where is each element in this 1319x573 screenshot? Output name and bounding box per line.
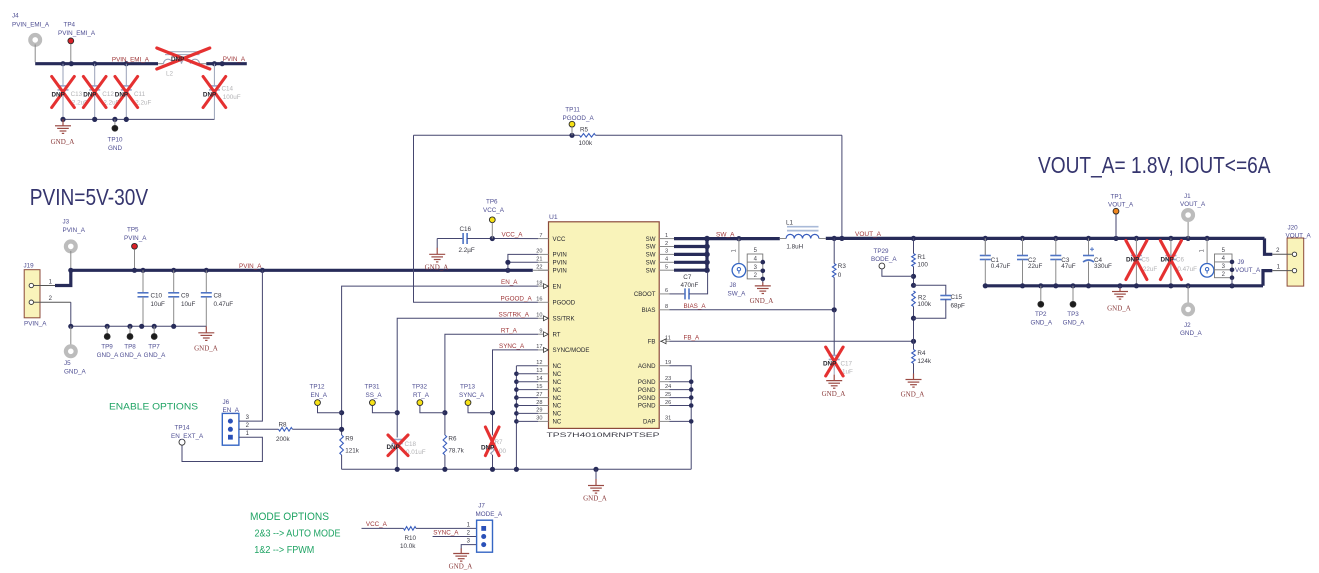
- svg-text:DNP: DNP: [115, 91, 128, 98]
- capacitor C1 0.47uF: [984, 238, 986, 255]
- pin 10 SS/TRK (U1 left): [538, 317, 549, 319]
- ground GND_A (J7): [453, 549, 469, 562]
- svg-text:10.0k: 10.0k: [400, 543, 416, 550]
- svg-text:GND_A: GND_A: [144, 352, 166, 359]
- wire PVIN_EMI_A bus: [35, 62, 158, 65]
- svg-text:C10: C10: [151, 292, 163, 299]
- pin 18 EN (U1 left): [538, 285, 549, 287]
- DNP mark C6: [1160, 241, 1181, 280]
- pin 3 SW (U1 right): [659, 253, 669, 255]
- wire TP5 stub: [134, 249, 136, 270]
- wire TP29 to R1/R2 node: [882, 269, 914, 276]
- svg-text:C5: C5: [1141, 257, 1150, 264]
- svg-text:R5: R5: [580, 127, 589, 134]
- ground GND_A (J8): [755, 282, 771, 293]
- svg-text:15: 15: [536, 384, 542, 390]
- svg-text:DAP: DAP: [643, 419, 656, 426]
- pin 12 NC (U1 left): [538, 365, 549, 367]
- svg-text:PGOOD: PGOOD: [553, 300, 576, 307]
- svg-text:DNP: DNP: [171, 56, 184, 63]
- svg-text:GND_A: GND_A: [750, 297, 774, 305]
- svg-text:470nF: 470nF: [681, 282, 699, 289]
- svg-text:30: 30: [536, 416, 542, 422]
- svg-text:8: 8: [665, 304, 668, 310]
- wire TP12 to EN net: [318, 406, 342, 413]
- svg-text:GND_A: GND_A: [822, 390, 846, 398]
- svg-text:PGND: PGND: [638, 387, 656, 394]
- svg-text:TP1: TP1: [1111, 193, 1123, 200]
- wire AGND/PGND/DAP to ground rail: [670, 366, 692, 470]
- svg-text:10uF: 10uF: [151, 301, 166, 308]
- pin 2 SW (U1 right): [659, 246, 669, 248]
- connector J6 EN_A: [222, 413, 239, 445]
- wire TP31 to SS net: [372, 406, 397, 413]
- connector J3 PVIN_A: [66, 242, 76, 252]
- capacitor C3 47uF: [1055, 238, 1057, 255]
- svg-text:TP11: TP11: [565, 107, 580, 114]
- svg-text:R3: R3: [838, 263, 847, 270]
- pin 20 PVIN (U1 left): [538, 253, 549, 255]
- pin 16 PGOOD (U1 left): [538, 301, 549, 303]
- svg-text:EN: EN: [553, 283, 561, 290]
- wire NC pins junction vertical: [515, 366, 517, 470]
- pin 6 CBOOT (U1 right): [659, 293, 669, 295]
- svg-text:DNP: DNP: [203, 91, 216, 98]
- wire FB_A net: [670, 340, 914, 342]
- svg-text:GND_A: GND_A: [1030, 320, 1052, 327]
- resistor R7 100 (DNP): [491, 435, 495, 455]
- ground GND_A (C17): [826, 375, 842, 389]
- svg-text:CBOOT: CBOOT: [634, 291, 656, 298]
- svg-text:VCC_A: VCC_A: [483, 207, 505, 214]
- svg-text:TPS7H4010MRNPTSEP: TPS7H4010MRNPTSEP: [547, 432, 660, 439]
- connector J19 PVIN_A: [24, 270, 40, 318]
- svg-text:14: 14: [536, 376, 542, 382]
- testpoint TP8 GND_A: [129, 326, 131, 333]
- wire PVIN_A bus: [71, 269, 533, 272]
- svg-text:0: 0: [838, 272, 842, 279]
- svg-text:EN_A: EN_A: [501, 279, 518, 286]
- testpoint TP14 EN_EXT_A: [179, 439, 185, 445]
- wire J19 pin1 to PVIN bus: [55, 270, 71, 285]
- svg-text:GND_A: GND_A: [120, 352, 142, 359]
- capacitor C12 2.2uF (DNP): [94, 64, 96, 86]
- svg-text:PVIN_EMI_A: PVIN_EMI_A: [12, 21, 50, 28]
- testpoint TP2 GND_A: [1040, 286, 1042, 302]
- svg-text:10uF: 10uF: [181, 301, 196, 308]
- svg-text:100k: 100k: [579, 140, 594, 147]
- svg-text:DNP: DNP: [52, 91, 65, 98]
- svg-text:R4: R4: [917, 350, 926, 357]
- svg-text:0.47uF: 0.47uF: [991, 263, 1011, 270]
- pin 1 J19: [34, 285, 56, 287]
- svg-text:J5: J5: [64, 360, 71, 367]
- svg-text:7: 7: [539, 233, 542, 239]
- resistor R6 78.7k: [443, 435, 447, 455]
- ground GND_A (input section): [198, 326, 214, 340]
- svg-text:21: 21: [536, 257, 542, 263]
- svg-text:TP2: TP2: [1035, 311, 1047, 318]
- svg-text:GND_A: GND_A: [1180, 330, 1202, 337]
- svg-text:0.47uF: 0.47uF: [1177, 266, 1197, 273]
- svg-text:J2: J2: [1184, 322, 1191, 329]
- wire RT_A net vertical: [445, 334, 538, 435]
- testpoint TP4 PVIN_EMI_A: [68, 38, 74, 44]
- svg-text:SW_A: SW_A: [728, 291, 747, 298]
- svg-text:20: 20: [536, 249, 542, 255]
- inductor L2 (DNP): [165, 51, 200, 53]
- resistor R3 0: [833, 238, 835, 263]
- svg-text:NC: NC: [553, 411, 562, 418]
- ground GND_A (R4): [906, 374, 922, 388]
- connector J9 VOUT_A (coax): [1206, 238, 1208, 263]
- svg-text:27: 27: [536, 392, 542, 398]
- wire VCC_A to pin 7: [467, 238, 538, 240]
- capacitor C14 100uF (DNP): [213, 64, 215, 86]
- resistor R10 10.0k: [404, 527, 417, 531]
- wire SW_A bus to L1: [707, 237, 780, 240]
- pin 14 NC (U1 left): [538, 381, 549, 383]
- svg-text:VOUT_A: VOUT_A: [1286, 232, 1312, 239]
- pin 13 NC (U1 left): [538, 373, 549, 375]
- capacitor C11 2.2uF (DNP): [125, 64, 127, 86]
- svg-text:26: 26: [665, 400, 671, 406]
- svg-text:GND_A: GND_A: [449, 563, 473, 571]
- svg-text:DNP: DNP: [387, 444, 400, 451]
- svg-text:13: 13: [536, 368, 542, 374]
- svg-text:DNP: DNP: [1126, 257, 1139, 264]
- ground GND_A (C16): [436, 239, 438, 249]
- svg-text:C16: C16: [460, 226, 472, 233]
- DNP mark C12: [83, 77, 106, 108]
- pin 31 DAP (U1 right): [659, 420, 669, 422]
- svg-text:100k: 100k: [917, 301, 932, 308]
- svg-text:PVIN_EMI_A: PVIN_EMI_A: [112, 56, 150, 63]
- svg-text:VOUT_A= 1.8V, IOUT<=6A: VOUT_A= 1.8V, IOUT<=6A: [1038, 152, 1271, 178]
- ground GND_A (analog rail): [595, 469, 597, 479]
- svg-text:VCC: VCC: [553, 236, 566, 243]
- svg-text:NC: NC: [553, 371, 562, 378]
- svg-text:C17: C17: [841, 360, 853, 367]
- svg-text:C15: C15: [951, 294, 963, 301]
- pin 28 NC (U1 left): [538, 405, 549, 407]
- testpoint TP6 VCC_A: [489, 217, 495, 223]
- pin 2 J19: [34, 301, 71, 303]
- svg-text:SYNC_A: SYNC_A: [499, 343, 525, 350]
- svg-text:GND_A: GND_A: [51, 138, 75, 146]
- svg-text:DNP: DNP: [481, 444, 494, 451]
- pin 23 PGND (U1 right): [659, 381, 669, 383]
- svg-text:22: 22: [536, 265, 542, 271]
- wire EN_A net vertical: [342, 286, 538, 435]
- svg-text:SW: SW: [646, 260, 656, 267]
- svg-text:GND_A: GND_A: [425, 264, 449, 272]
- wire input ground rail: [71, 325, 207, 327]
- svg-text:6: 6: [665, 288, 668, 294]
- svg-text:TP7: TP7: [148, 344, 160, 351]
- DNP mark C11: [115, 77, 138, 108]
- svg-text:SYNC_A: SYNC_A: [433, 529, 459, 536]
- svg-text:TP32: TP32: [412, 384, 428, 391]
- svg-text:NC: NC: [553, 395, 562, 402]
- svg-text:J20: J20: [1288, 224, 1299, 231]
- pin 11 FB (U1 right): [659, 340, 669, 342]
- testpoint TP5 PVIN_A: [132, 243, 138, 249]
- wire SYNC_A net vertical: [493, 350, 539, 435]
- svg-text:TP6: TP6: [486, 199, 498, 206]
- svg-text:GND_A: GND_A: [1107, 304, 1131, 312]
- svg-text:TP13: TP13: [460, 384, 476, 391]
- DNP mark C5: [1126, 241, 1147, 280]
- svg-text:SW: SW: [646, 244, 656, 251]
- ground GND_A (output rail): [1119, 286, 1121, 289]
- svg-text:124k: 124k: [917, 358, 932, 365]
- J8 shield pins: [747, 254, 763, 279]
- DNP mark C18: [388, 435, 408, 456]
- svg-text:47uF: 47uF: [1061, 263, 1076, 270]
- svg-text:18: 18: [536, 280, 542, 286]
- svg-text:VOUT_A: VOUT_A: [1235, 267, 1261, 274]
- pin 26 PGND (U1 right): [659, 405, 669, 407]
- wire PVIN_A stub after L2: [206, 62, 247, 65]
- svg-text:EN_EXT_A: EN_EXT_A: [171, 433, 204, 440]
- testpoint TP31 SS_A: [370, 400, 376, 406]
- svg-text:PVIN_EMI_A: PVIN_EMI_A: [58, 30, 96, 37]
- svg-text:DNP: DNP: [83, 91, 96, 98]
- node junctions on PVIN_EMI_A bus: [60, 61, 65, 66]
- testpoint TP9 GND_A: [106, 326, 108, 333]
- svg-text:AGND: AGND: [638, 363, 656, 370]
- svg-text:TP31: TP31: [365, 384, 381, 391]
- DNP mark C14: [203, 77, 226, 108]
- svg-text:RT: RT: [553, 331, 561, 338]
- wire J7 pin 3 to ground: [461, 545, 476, 550]
- svg-text:31: 31: [665, 416, 671, 422]
- svg-text:BODE_A: BODE_A: [871, 256, 897, 263]
- svg-text:PVIN_A: PVIN_A: [239, 263, 262, 270]
- svg-text:U1: U1: [549, 214, 558, 221]
- wire J19 pin2 to ground rail: [70, 302, 72, 326]
- pin 1 J20: [1272, 270, 1292, 272]
- svg-text:J9: J9: [1238, 259, 1245, 266]
- capacitor C16 2.2uF: [437, 238, 463, 240]
- svg-text:22uF: 22uF: [1143, 266, 1158, 273]
- svg-text:TP29: TP29: [874, 248, 890, 255]
- svg-text:SYNC/MODE: SYNC/MODE: [553, 347, 590, 354]
- svg-text:FB_A: FB_A: [684, 334, 701, 341]
- capacitor C10 10uF: [142, 270, 144, 293]
- svg-text:R8: R8: [279, 421, 288, 428]
- testpoint TP32 RT_A: [417, 400, 423, 406]
- testpoint TP13 SYNC_A: [465, 400, 471, 406]
- connector J4 PVIN_EMI_A: [30, 35, 40, 45]
- svg-text:C11: C11: [134, 91, 146, 98]
- svg-text:DNP: DNP: [823, 361, 836, 368]
- svg-text:C9: C9: [181, 292, 190, 299]
- svg-text:GND_A: GND_A: [1063, 320, 1085, 327]
- pin 27 NC (U1 left): [538, 397, 549, 399]
- wire analog ground rail: [342, 468, 692, 470]
- svg-text:NC: NC: [553, 387, 562, 394]
- connector J1 VOUT_A: [1187, 222, 1189, 239]
- testpoint TP10 GND: [114, 119, 116, 125]
- svg-text:TP4: TP4: [64, 22, 76, 29]
- pin 29 NC (U1 left): [538, 412, 549, 414]
- capacitor C7 470nF (CBOOT): [670, 293, 686, 295]
- inductor L1 1.8uH: [780, 238, 786, 240]
- pin 24 PGND (U1 right): [659, 389, 669, 391]
- svg-text:PVIN_A: PVIN_A: [223, 56, 246, 63]
- svg-text:PVIN_A: PVIN_A: [63, 227, 86, 234]
- svg-text:J6: J6: [223, 399, 230, 406]
- svg-text:TP12: TP12: [310, 384, 326, 391]
- svg-text:DNP: DNP: [1161, 257, 1174, 264]
- svg-text:VOUT_A: VOUT_A: [855, 231, 882, 238]
- svg-text:NC: NC: [553, 379, 562, 386]
- svg-text:C14: C14: [222, 86, 234, 93]
- pin 25 PGND (U1 right): [659, 397, 669, 399]
- wire J9 shield to ground rail: [1231, 278, 1233, 286]
- svg-text:L1: L1: [786, 220, 794, 227]
- svg-text:PVIN=5V-30V: PVIN=5V-30V: [30, 184, 149, 210]
- svg-text:23: 23: [665, 376, 671, 382]
- svg-text:200k: 200k: [276, 436, 291, 443]
- svg-text:100: 100: [917, 261, 928, 268]
- svg-text:PVIN_A: PVIN_A: [124, 235, 147, 242]
- svg-text:10: 10: [536, 313, 542, 319]
- svg-text:330uF: 330uF: [1094, 263, 1112, 270]
- svg-text:PVIN: PVIN: [553, 260, 567, 267]
- svg-text:R1: R1: [917, 254, 926, 261]
- svg-text:PVIN: PVIN: [553, 252, 567, 259]
- svg-text:MODE_A: MODE_A: [476, 511, 503, 518]
- connector J7 MODE_A: [477, 520, 493, 552]
- svg-text:PGND: PGND: [638, 379, 656, 386]
- svg-text:GND_A: GND_A: [64, 368, 86, 375]
- connector J20 VOUT_A: [1287, 238, 1304, 286]
- svg-text:100uF: 100uF: [223, 94, 241, 101]
- svg-text:1: 1: [665, 233, 668, 239]
- svg-text:SW_A: SW_A: [716, 231, 735, 238]
- svg-text:121k: 121k: [345, 447, 360, 454]
- svg-text:2&3 --> AUTO MODE: 2&3 --> AUTO MODE: [255, 529, 341, 540]
- svg-text:ENABLE OPTIONS: ENABLE OPTIONS: [109, 402, 198, 413]
- svg-text:TP9: TP9: [101, 344, 113, 351]
- svg-text:J1: J1: [1184, 193, 1191, 200]
- wire SYNC_A to J7 pin 2: [433, 536, 477, 538]
- svg-text:L2: L2: [166, 71, 174, 78]
- svg-text:2.2µF: 2.2µF: [459, 247, 475, 254]
- testpoint TP7 GND_A: [153, 326, 155, 333]
- svg-text:VCC_A: VCC_A: [502, 232, 524, 239]
- resistor R4 124k: [913, 341, 915, 349]
- pin 7 VCC (U1 left): [538, 238, 549, 240]
- pin 8 BIAS (U1 right): [659, 309, 669, 311]
- svg-text:1&2 --> FPWM: 1&2 --> FPWM: [254, 545, 314, 556]
- wire VOUT_A bus: [826, 237, 1265, 240]
- connector J8 SW_A (coax): [738, 239, 740, 264]
- svg-text:J8: J8: [730, 282, 737, 289]
- svg-text:J19: J19: [24, 262, 35, 269]
- capacitor C17 1uF (DNP): [833, 310, 835, 356]
- svg-text:FB: FB: [648, 339, 656, 346]
- wire BIAS_A net: [670, 309, 835, 311]
- pin 9 RT (U1 left): [538, 333, 549, 335]
- svg-text:J4: J4: [12, 13, 19, 20]
- svg-text:4: 4: [665, 257, 668, 263]
- wire J3 stub: [70, 251, 72, 270]
- DNP mark C13: [52, 77, 75, 108]
- svg-text:3: 3: [665, 249, 668, 255]
- svg-text:C18: C18: [405, 441, 417, 448]
- pin 22 PVIN (U1 left): [538, 269, 549, 271]
- svg-text:29: 29: [536, 408, 542, 414]
- wire SW pins merge bus: [670, 238, 675, 240]
- svg-text:SW: SW: [646, 252, 656, 259]
- svg-text:BIAS: BIAS: [642, 307, 656, 314]
- capacitor C9 10uF: [173, 270, 175, 293]
- testpoint TP11 PGOOD_A: [569, 121, 575, 127]
- ground GND_A (EMI section): [55, 119, 71, 133]
- svg-text:5: 5: [665, 265, 668, 271]
- svg-text:SW: SW: [646, 267, 656, 274]
- wire EMI ground rail: [63, 118, 214, 120]
- svg-text:SS/TRK_A: SS/TRK_A: [499, 311, 530, 318]
- testpoint TP29 BODE_A: [879, 263, 885, 269]
- wire TP32 to RT net: [420, 406, 445, 413]
- capacitor C8 0.47uF: [205, 270, 207, 293]
- svg-text:C12: C12: [102, 91, 114, 98]
- capacitor C2 22uF: [1022, 238, 1024, 255]
- svg-text:0.47uF: 0.47uF: [214, 301, 234, 308]
- capacitor C18 0.01uF (DNP): [392, 439, 403, 441]
- svg-text:RT_A: RT_A: [501, 327, 518, 334]
- svg-text:PGOOD_A: PGOOD_A: [563, 115, 595, 122]
- pin 4 SW (U1 right): [659, 261, 669, 263]
- wire output ground rail: [984, 238, 986, 255]
- svg-text:TP8: TP8: [124, 344, 136, 351]
- svg-text:VOUT_A: VOUT_A: [1180, 201, 1206, 208]
- svg-text:PGOOD_A: PGOOD_A: [501, 295, 533, 302]
- J9 shield pins: [1215, 254, 1233, 278]
- resistor R8 200k: [279, 428, 293, 432]
- svg-text:GND: GND: [108, 145, 122, 152]
- pin 21 PVIN (U1 left): [538, 261, 549, 263]
- svg-text:R6: R6: [448, 435, 457, 442]
- svg-text:SS_A: SS_A: [366, 392, 383, 399]
- svg-text:TP5: TP5: [127, 227, 139, 234]
- pin 19 AGND (U1 right): [659, 365, 669, 367]
- pin 5 SW (U1 right): [659, 269, 669, 271]
- svg-text:16: 16: [536, 297, 542, 303]
- DNP mark C17: [826, 347, 843, 376]
- svg-text:28: 28: [536, 400, 542, 406]
- DNP mark R7: [485, 427, 499, 456]
- svg-text:GND_A: GND_A: [583, 494, 607, 502]
- pin 1 SW (U1 right): [659, 238, 669, 240]
- testpoint TP3 GND_A: [1072, 286, 1074, 302]
- svg-text:TP10: TP10: [107, 136, 123, 143]
- capacitor C6 0.47uF (DNP): [1170, 238, 1172, 255]
- wire J8 shield to ground: [762, 279, 764, 283]
- DNP mark L2: [157, 48, 210, 69]
- svg-text:C8: C8: [214, 292, 223, 299]
- svg-text:9: 9: [539, 329, 542, 335]
- svg-text:VCC_A: VCC_A: [366, 521, 388, 528]
- svg-text:78.7k: 78.7k: [448, 447, 464, 454]
- resistor R1 100: [913, 238, 915, 253]
- svg-text:SYNC_A: SYNC_A: [459, 392, 485, 399]
